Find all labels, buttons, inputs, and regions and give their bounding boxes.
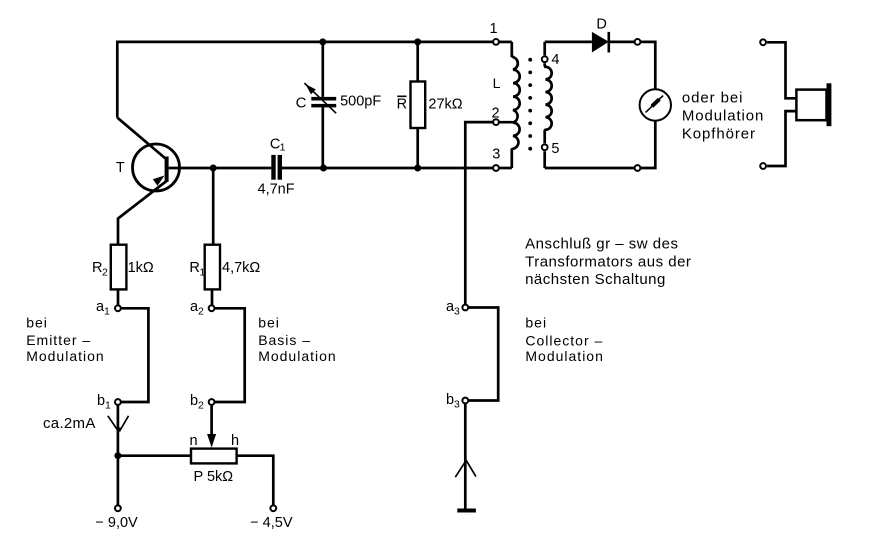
diode D — [592, 32, 609, 53]
svg-text:2: 2 — [198, 400, 204, 412]
wire b1 down — [117, 402, 120, 508]
svg-text:T: T — [116, 160, 125, 176]
svg-text:Collector –: Collector – — [525, 333, 603, 349]
potentiometer wiper arrow — [207, 434, 216, 448]
terminal battery minus 9V — [115, 505, 121, 511]
wire battery rail left — [118, 454, 191, 457]
label R2 — [92, 260, 108, 279]
svg-text:2: 2 — [198, 306, 204, 318]
svg-text:R: R — [92, 260, 102, 276]
svg-text:h: h — [231, 433, 239, 449]
wire meter to plug bottom — [640, 121, 655, 168]
svg-text:Modulation: Modulation — [682, 108, 764, 125]
label 4,7kOhm — [222, 260, 260, 276]
label C1 — [270, 136, 286, 153]
label Anschluss note — [525, 236, 691, 289]
wire R2 to a1 — [117, 289, 120, 308]
wire C branch lower — [321, 107, 324, 168]
terminal speaker bottom — [760, 163, 766, 169]
wire pot to battery 4,5V — [237, 456, 274, 508]
wire terminal1 to winding — [496, 41, 512, 44]
svg-text:oder bei: oder bei — [682, 90, 743, 107]
terminal 4 — [542, 56, 548, 62]
svg-text:nächsten Schaltung: nächsten Schaltung — [525, 271, 666, 288]
wire R1 top — [212, 168, 215, 245]
resistor R1 body — [205, 245, 220, 290]
label bei Collector Modulation — [525, 315, 604, 365]
node junction R bottom — [414, 165, 421, 172]
label 1kOhm — [128, 260, 154, 276]
svg-text:b: b — [190, 393, 198, 409]
label b1 — [97, 393, 111, 412]
wire b2 wiper — [210, 402, 213, 436]
label 2 — [491, 106, 499, 122]
svg-text:Emitter –: Emitter – — [26, 332, 91, 348]
inductor secondary winding — [545, 42, 552, 168]
label n — [190, 433, 198, 449]
label 500pF — [340, 94, 381, 110]
svg-text:Modulation: Modulation — [26, 348, 105, 364]
label -4,5V — [250, 515, 293, 531]
node junction C top — [319, 38, 326, 45]
svg-text:D: D — [596, 16, 606, 32]
label bei Emitter Modulation — [26, 315, 105, 365]
terminal battery minus 4,5V — [270, 505, 276, 511]
svg-text:bei: bei — [258, 315, 280, 331]
ground bar — [457, 509, 476, 513]
wire secondary top — [545, 41, 592, 44]
terminal speaker top — [760, 39, 766, 45]
transistor T1 base bar — [165, 157, 169, 182]
label P 5kOhm — [194, 469, 234, 485]
transformer core dots — [528, 58, 532, 151]
node junction C bottom — [320, 165, 327, 172]
capacitor C1 plates — [271, 155, 282, 180]
label 5 — [551, 141, 559, 157]
svg-text:500pF: 500pF — [340, 94, 381, 110]
arrow down on b1 wire — [108, 416, 129, 432]
terminal plug top — [635, 39, 641, 45]
wire main rail right of C1 — [282, 167, 496, 170]
wire emitter diagonal — [118, 181, 167, 245]
label b2 — [190, 393, 204, 412]
svg-text:b: b — [97, 393, 105, 409]
meter M — [640, 89, 671, 120]
terminal a3 — [462, 305, 468, 311]
label bei Basis Modulation — [258, 315, 337, 365]
wire terminal3 stub — [496, 167, 512, 170]
svg-text:Transformators aus der: Transformators aus der — [525, 254, 691, 271]
wire C branch upper — [321, 42, 324, 97]
wire plug to meter — [638, 42, 656, 89]
label R with overline — [397, 96, 407, 112]
terminal a1 — [115, 305, 121, 311]
speaker diaphragm bar — [827, 83, 832, 126]
label 1 — [489, 21, 497, 37]
label D — [596, 16, 606, 32]
node junction battery rail — [114, 452, 121, 459]
svg-text:Kopfhörer: Kopfhörer — [682, 126, 756, 143]
node junction R1 top — [210, 165, 217, 172]
svg-text:4,7kΩ: 4,7kΩ — [222, 260, 260, 276]
wire terminal2 to a3 — [465, 122, 496, 307]
svg-text:4: 4 — [551, 52, 559, 68]
wire R branch lower — [416, 128, 419, 168]
svg-text:R: R — [397, 96, 407, 112]
svg-text:2: 2 — [102, 267, 108, 279]
transistor T1 circle — [133, 144, 180, 191]
wire top rail — [117, 42, 496, 118]
svg-text:5: 5 — [551, 141, 559, 157]
wire tap to terminal 2 — [496, 121, 513, 124]
wire R1 to a2 — [211, 289, 214, 308]
svg-text:b: b — [446, 392, 454, 408]
svg-text:Basis –: Basis – — [258, 332, 311, 348]
wire a2 to b2 loop — [212, 308, 245, 402]
wire speaker top lead — [767, 42, 796, 98]
terminal b3 — [462, 398, 468, 404]
wire b3 down — [464, 401, 467, 510]
label b3 — [446, 392, 460, 411]
terminal a2 — [209, 305, 215, 311]
wire main rail left of C1 — [169, 167, 272, 170]
svg-text:n: n — [190, 433, 198, 449]
resistor R2 body — [111, 245, 127, 290]
label h — [231, 433, 239, 449]
wire diode to plug — [609, 41, 638, 44]
svg-text:27kΩ: 27kΩ — [428, 97, 462, 113]
svg-text:1: 1 — [280, 142, 286, 154]
svg-text:Anschluß gr – sw des: Anschluß gr – sw des — [525, 236, 678, 253]
label a2 — [190, 299, 204, 318]
svg-text:3: 3 — [454, 306, 460, 318]
svg-text:− 9,0V: − 9,0V — [95, 515, 138, 531]
terminal 2 — [493, 119, 499, 125]
svg-text:ca.2mA: ca.2mA — [43, 415, 96, 432]
transistor T1 emitter arrow — [153, 176, 165, 186]
svg-text:bei: bei — [525, 315, 547, 331]
wire collector diagonal — [117, 118, 165, 159]
arrow up on b3 wire — [455, 460, 476, 477]
wire a1 to b1 loop — [118, 308, 148, 402]
svg-text:1kΩ: 1kΩ — [128, 260, 154, 276]
label T — [116, 160, 125, 176]
svg-text:3: 3 — [454, 399, 460, 411]
label L — [493, 75, 501, 91]
capacitor C variable plates — [311, 97, 336, 108]
label 27kOhm — [428, 97, 462, 113]
wire R branch upper — [416, 42, 419, 82]
svg-text:1: 1 — [199, 267, 205, 279]
svg-text:R: R — [189, 260, 199, 276]
svg-text:Modulation: Modulation — [258, 348, 337, 364]
svg-text:1: 1 — [489, 21, 497, 37]
resistor R body — [411, 82, 426, 129]
label ca.2mA — [43, 415, 96, 432]
wire a3 to b3 loop — [465, 308, 498, 401]
svg-text:P 5kΩ: P 5kΩ — [194, 469, 234, 485]
label 3 — [492, 147, 500, 163]
terminal 3 — [493, 165, 499, 171]
svg-text:1: 1 — [105, 400, 111, 412]
capacitor C variable arrow — [304, 83, 336, 113]
label R1 — [189, 260, 205, 279]
label 4,7nF — [258, 182, 295, 198]
potentiometer P body — [191, 449, 237, 464]
terminal 5 — [542, 144, 548, 150]
label a3 — [446, 299, 460, 318]
inductor L primary winding — [512, 42, 520, 168]
node junction R top — [414, 38, 421, 45]
terminal b1 — [115, 399, 121, 405]
svg-text:3: 3 — [492, 147, 500, 163]
terminal 1 — [493, 39, 499, 45]
wire secondary bottom — [545, 167, 641, 170]
svg-text:Modulation: Modulation — [525, 348, 604, 364]
label a1 — [96, 299, 110, 318]
terminal plug bottom — [635, 165, 641, 171]
speaker body — [796, 90, 826, 121]
svg-text:1: 1 — [104, 306, 110, 318]
label 4 — [551, 52, 559, 68]
terminal b2 — [209, 399, 215, 405]
svg-text:4,7nF: 4,7nF — [258, 182, 295, 198]
svg-text:C: C — [296, 95, 307, 112]
label -9,0V — [95, 515, 138, 531]
svg-text:bei: bei — [26, 315, 48, 331]
label C — [296, 95, 307, 112]
svg-text:L: L — [493, 75, 501, 91]
svg-text:− 4,5V: − 4,5V — [250, 515, 293, 531]
label oder bei Modulation Kopfhoerer — [682, 90, 764, 143]
wire speaker bottom lead — [767, 111, 796, 166]
